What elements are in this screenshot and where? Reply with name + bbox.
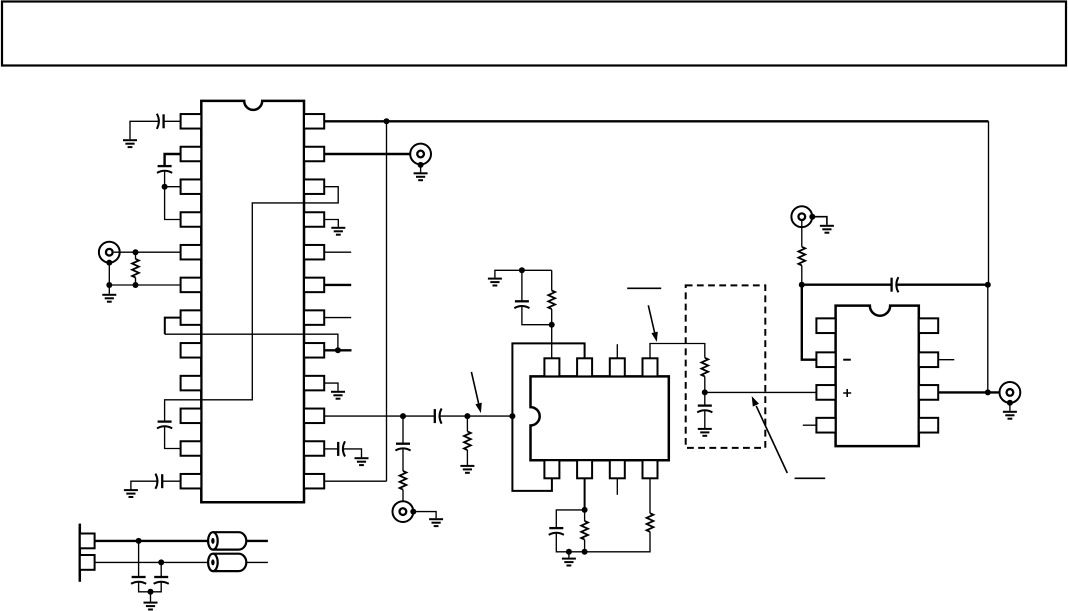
U1 right pin 3 box [304,179,324,194]
U1 left pin 4 box [181,212,202,227]
node junction [162,184,168,190]
U3 inverting input label [843,359,851,361]
node junction [582,549,588,555]
ground [820,226,834,233]
resistor R6 [581,521,588,540]
RCA jack J2 [410,144,431,165]
wire U3 output [938,391,1005,393]
wire [420,165,422,173]
U3 right pin 4 box [919,418,938,433]
wire stub U2 pin B3 [616,478,618,495]
RCA jack J3 [393,501,414,522]
wire U2 pin B2 [584,478,586,510]
capacitor C8 [514,301,529,308]
wire [164,120,181,122]
wire stub U1 pin R7 [324,317,351,319]
U1 right pin 12 box [304,474,324,489]
wire to op-amp non-inverting input [705,391,817,393]
wire to pin L3 [165,186,181,188]
IC U3 body (op-amp, DIP-8) [836,306,919,447]
wire [466,416,468,431]
node junction J5 shield [1007,400,1013,406]
U1 left pin 6 box [181,278,202,293]
ground [429,519,443,526]
annotation arrow 1 [648,305,654,333]
U2 bottom pin 5 box [544,460,559,478]
node junction [799,282,805,288]
wire [135,252,137,259]
wire U1 pin R9 [324,383,338,391]
wire net from U1 pin R3 routed through IC body [165,187,339,422]
resistor R4 [548,291,555,310]
wire [130,121,159,139]
U2 top pin 4 box [643,358,658,376]
wire U1 pin R11 [324,448,338,450]
wire from U1 pin L7 crossing IC body [165,318,181,335]
ground [331,228,345,235]
U3 right pin 1 box [919,318,938,333]
resistor R7 [647,513,654,532]
wire [138,541,140,577]
U2 top pin 1 box [544,358,559,376]
node junction [519,267,525,273]
ferrite bead FB1 [208,532,246,549]
U1 right pin 1 box [304,114,324,129]
wire [704,410,706,428]
U3 left pin 3 box [816,385,835,400]
U3 right pin 2 box [919,352,938,367]
node junction [158,559,164,565]
node junction J4 shield [809,214,815,220]
U1 right pin 10 box [304,409,324,424]
wire [466,450,468,465]
U1 right pin 6 box [304,278,324,293]
wire U2 pin T2 loop to pin B1 [512,343,584,491]
annotation arrow 3 head [475,403,481,414]
U2 top pin 3 box [610,358,625,376]
wire P2 [95,561,210,563]
wire [522,306,552,325]
ground [355,458,369,465]
wire U1 pin R10 [324,415,435,417]
node junction [985,282,991,288]
U2 top pin 2 box [577,358,592,376]
U1 left pin 12 box [181,474,202,489]
wire [704,376,706,392]
node junction [566,549,572,555]
node junction [335,347,341,353]
wire [551,309,553,325]
wire U1 pin R1 supply rail [324,120,988,122]
U1 left pin 7 box [181,310,202,325]
U2 bottom pin 8 box [643,460,658,478]
ferrite bead FB2 [208,554,246,571]
wire [521,270,523,301]
U1 right pin 7 box [304,310,324,325]
wire stub U3 pin R2 [938,359,954,361]
node junction [384,118,390,124]
wire R1 to R12 [386,121,388,481]
wire [402,448,404,471]
ground [124,490,138,497]
wire [495,270,552,277]
ground [414,173,428,180]
resistor R2 [400,471,407,490]
wire U1 pin R2 output [324,153,416,155]
node junction [106,282,112,288]
node junction J1 shield [106,260,112,266]
wire U1 pin R8 [324,349,351,351]
header pin P1 box [80,534,95,549]
node junction [133,249,139,255]
node junction [702,389,708,395]
capacitor C5 [131,577,146,584]
capacitor C3 (interior net to pin L11) [157,422,172,429]
U2 bottom pin 6 box [577,460,592,478]
ground [102,295,116,302]
capacitor C11 [549,528,564,535]
wire feedback rail [802,284,892,286]
ground [144,603,158,610]
capacitor C6 [154,577,169,584]
wire [987,285,989,393]
capacitor C7 coupling [435,409,442,424]
U1 right pin 9 box [304,376,324,391]
U2 bottom pin 7 box [610,460,625,478]
U1 left pin 3 box [181,179,202,194]
ground [1003,412,1017,419]
U1 right pin 8 box [304,343,324,358]
wire [131,481,158,489]
wire U1 pin R4 [324,220,338,227]
wire [343,449,362,457]
annotation label line 1 [627,287,661,289]
ground [460,466,474,473]
wire to U2 pin T1 [551,325,553,359]
annotation arrow 2 [756,406,787,473]
node junction [549,322,555,328]
wire [413,512,436,519]
resistor R3 [464,431,471,450]
resistor R8 feedback [798,247,805,266]
wire [246,561,268,563]
wire stub U3 pin L4 [803,424,817,426]
ground [698,429,712,436]
U1 left pin 2 box [181,147,202,162]
U1 left pin 10 box [181,409,202,424]
U1 left pin 1 box [181,114,202,129]
wire [556,510,584,528]
capacitor C10 (in dashed block) [697,406,712,413]
RCA jack J5 (output) [1000,382,1021,403]
ground [331,392,345,399]
node junction [136,538,142,544]
wire [160,562,162,577]
U1 left pin 5 box [181,245,202,260]
wire [584,540,586,552]
node junction [582,507,588,513]
wire [402,416,404,444]
capacitor C13 [338,441,345,456]
U1 right pin 11 box [304,441,324,456]
title block frame [2,2,1066,66]
node junction [400,413,406,419]
U1 right pin 5 box [304,245,324,260]
wire to inverting input [802,285,817,360]
annotation arrow 2 head [752,396,759,407]
ground [562,559,576,566]
wire [896,284,988,286]
annotation arrow 3 [471,372,478,404]
wire down right edge [988,121,990,284]
dashed option block [686,285,766,448]
node junction J2 shield [418,162,424,168]
annotation arrow 1 head [651,332,657,342]
capacitor C2 [157,166,172,173]
node junction [133,282,139,288]
wire [402,490,404,502]
node junction [148,589,154,595]
capacitor C1 at U1 pin L1 [157,114,164,129]
wire [801,265,803,284]
RCA jack J4 (top right) [791,206,812,227]
wire [1009,403,1011,411]
U3 left pin 1 box [816,318,835,333]
RCA jack J1 (left input) [99,242,120,263]
U3 left pin 4 box [816,418,835,433]
IC U1 body (main tuner IC, DIP-24) [201,101,304,502]
U3 left pin 2 box [816,352,835,367]
U1 left pin 8 box [181,343,202,358]
wire stub U1 pin R5 [324,251,351,253]
wire [568,552,570,558]
capacitor C4 at U1 pin L12 [155,474,162,489]
node junction [509,413,515,419]
resistor R1 input termination [132,259,139,278]
power entry header bar [79,524,82,582]
IC U2 body (decoder, DIP-8 sideways) [531,376,669,460]
U1 left pin 9 box [181,376,202,391]
U1 right pin 4 box [304,212,324,227]
node junction J3 shield [410,509,416,515]
capacitor C9 [395,444,410,451]
wire U2 pin T4 [650,344,705,359]
wire U1 pin L2 [165,154,181,165]
wire [812,217,827,225]
U3 non-inverting input label [843,389,851,397]
wire P1 [95,540,210,542]
ground (top of RC pair) [488,279,502,286]
annotation label line 2 [795,477,826,479]
wire [801,221,803,247]
wire U1 pin R12 [324,480,386,482]
wire [162,480,180,482]
wire [704,392,706,405]
wire [135,278,137,286]
node junction [464,413,470,419]
wire [165,426,181,448]
ground [123,140,137,147]
wire U2 pin B4 [649,478,651,513]
wire J1 to pin L5 [114,251,181,253]
wire [551,270,553,290]
wire [164,171,166,187]
wire [440,415,513,417]
header pin P2 box [80,555,95,570]
wire [108,263,110,294]
wire [150,592,152,602]
wire [165,334,338,350]
wire stub U2 pin T3 [616,344,618,358]
wire [139,582,162,592]
wire to pin L6 [109,284,180,286]
wire stub U1 pin R6 [324,284,351,286]
wire [246,540,268,542]
wire to pin L4 [165,187,181,220]
U1 right pin 2 box [304,147,324,162]
U1 left pin 11 box [181,441,202,456]
wire [556,532,650,552]
capacitor C12 feedback [892,277,899,292]
resistor R5 (in dashed block) [701,358,708,377]
wire [584,510,586,521]
node junction [985,389,991,395]
U3 right pin 3 box [919,385,938,400]
